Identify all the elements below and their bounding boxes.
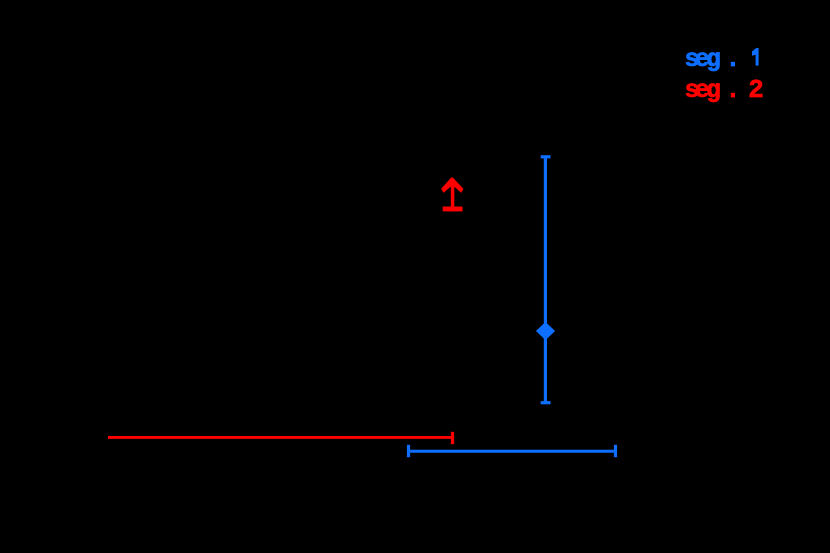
svg-text:g: g: [706, 46, 721, 74]
svg-text:2: 2: [748, 75, 764, 105]
svg-text:.: .: [726, 46, 741, 74]
svg-text:g: g: [706, 77, 721, 105]
svg-text:.: .: [726, 77, 741, 105]
